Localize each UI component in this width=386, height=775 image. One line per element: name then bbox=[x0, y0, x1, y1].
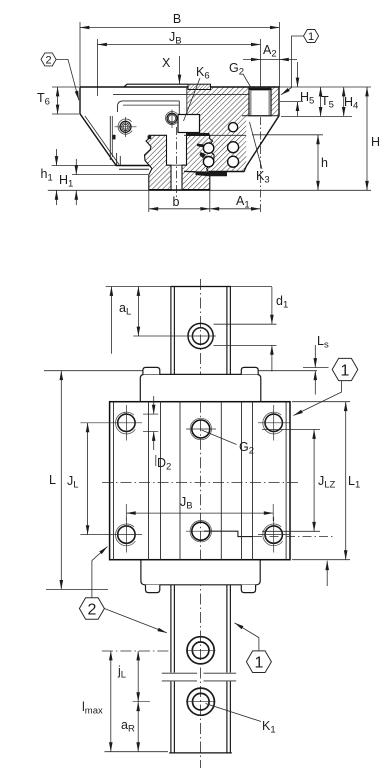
svg-text:h: h bbox=[321, 156, 328, 170]
hexagon 2 lower bbox=[79, 598, 104, 620]
G2 label leader bbox=[202, 430, 237, 445]
X view arrow bbox=[179, 56, 181, 84]
hole A centerline ext bbox=[102, 650, 171, 652]
rail corner seal mark bbox=[148, 136, 152, 139]
rail axis dash-dot bbox=[176, 127, 178, 197]
T5 H4 bottom extension line bbox=[281, 115, 352, 117]
wiper tab top left bbox=[143, 367, 160, 374]
dimension JB line bbox=[98, 44, 261, 46]
aR dimension bbox=[137, 702, 139, 752]
rail hole top bbox=[188, 323, 213, 348]
aL dimension bbox=[137, 287, 139, 337]
side hole centerline dash-dot bbox=[253, 536, 333, 538]
rail edges bottom segment bbox=[170, 585, 172, 673]
h1 arrows bbox=[56, 149, 58, 166]
H1 extension line bbox=[72, 174, 148, 176]
d1 extension lines bbox=[214, 323, 277, 325]
H5 arrows bbox=[297, 62, 299, 87]
h dimension bbox=[317, 135, 319, 191]
corner hole top-right bbox=[265, 414, 282, 431]
lid line on top bbox=[124, 84, 188, 87]
T6 dimension line bbox=[57, 87, 59, 114]
corner hole bottom-left bbox=[118, 526, 135, 543]
L1 dimension bbox=[345, 402, 347, 560]
JB dimension bbox=[125, 504, 127, 521]
H1 arrows bbox=[75, 159, 77, 175]
wiper tab bottom left bbox=[146, 585, 160, 593]
T6 extension lines bbox=[52, 86, 79, 88]
K6 slot edges bbox=[178, 101, 180, 115]
G2 hole bottom shoulder bbox=[242, 115, 278, 117]
h extension line bbox=[252, 134, 323, 136]
K1 leader bbox=[206, 704, 262, 722]
Ls arrows bbox=[314, 345, 316, 368]
rail centerline overlay in carriage bbox=[200, 402, 202, 560]
H4 dimension bbox=[343, 87, 345, 116]
Ls feature line bbox=[303, 367, 329, 369]
rail centerline bbox=[200, 279, 202, 768]
H5 feature line bbox=[280, 101, 303, 103]
rail cross-section right lobe bbox=[182, 135, 214, 189]
L top extension line bbox=[44, 370, 143, 372]
H top extension line bbox=[279, 86, 371, 88]
rail counterbore shelf bbox=[167, 164, 187, 166]
K6 leader bbox=[184, 78, 201, 121]
K6 insert square bbox=[178, 115, 200, 133]
dimension B extension lines bbox=[79, 22, 81, 87]
rail end reference arrow bbox=[110, 287, 112, 354]
wiper tab on top bbox=[188, 84, 211, 89]
dimension A2 arrows bbox=[243, 59, 260, 61]
L bottom extension line bbox=[46, 588, 108, 590]
rail cross-section left lobe bbox=[145, 135, 172, 189]
carriage body rectangle bbox=[110, 402, 290, 560]
svg-text:B: B bbox=[173, 12, 181, 26]
hexagon 2 leader to rail bbox=[104, 609, 166, 633]
ball mid left bbox=[203, 143, 213, 153]
svg-text:X: X bbox=[162, 56, 171, 70]
G2 hole axis dash-dot bbox=[259, 88, 261, 212]
ball mid right bbox=[228, 142, 239, 153]
seal clamp mark bbox=[113, 135, 116, 140]
L1 extension lines bbox=[292, 401, 350, 403]
carriage bottom seal line bbox=[119, 168, 149, 170]
d1 dimension arrows bbox=[271, 287, 273, 324]
end cap inner edges bbox=[109, 116, 111, 160]
G2 counterbore hole bbox=[249, 88, 271, 115]
svg-text:2: 2 bbox=[87, 601, 96, 618]
side lube hole stepped reference line bbox=[204, 531, 253, 536]
rail edges top segment bbox=[170, 287, 172, 375]
carriage internal vertical lines bbox=[148, 402, 150, 560]
body split line bbox=[113, 93, 249, 95]
end cap step lines bbox=[118, 101, 180, 112]
dimension B line bbox=[80, 27, 279, 29]
G2 hole top bbox=[192, 420, 210, 438]
corner hole top-left bbox=[118, 414, 135, 431]
rail hole B bbox=[187, 688, 214, 715]
svg-text:1: 1 bbox=[308, 31, 314, 43]
corner hole bottom-right bbox=[265, 526, 282, 543]
saddle plate top bbox=[140, 374, 260, 401]
hexagon 1 upper bbox=[332, 358, 358, 380]
H bottom extension line bbox=[48, 189, 371, 191]
lmax dimension bbox=[110, 651, 112, 752]
svg-text:2: 2 bbox=[45, 54, 51, 66]
ball top right bbox=[229, 123, 238, 132]
JLZ dimension bbox=[313, 430, 315, 532]
K3 leader bbox=[250, 122, 263, 169]
carriage hatched body bbox=[187, 87, 279, 172]
seal strip lower bbox=[196, 171, 228, 176]
wiper tab bottom right bbox=[241, 585, 255, 593]
hexagon 1 leader bbox=[281, 36, 304, 95]
hexagon 1 upper leader bbox=[294, 381, 342, 416]
b extension lines bbox=[148, 191, 150, 212]
L dimension bbox=[60, 371, 62, 590]
hexagon 2 callout bbox=[41, 53, 56, 66]
carriage chamfer inner line bbox=[85, 116, 119, 165]
carriage inner edge lines bbox=[113, 402, 115, 560]
saddle plate bottom bbox=[141, 560, 260, 585]
h1 extension line bbox=[52, 165, 116, 167]
end cap lower corner edges bbox=[116, 153, 118, 166]
screw port left bbox=[118, 119, 132, 134]
arrow under carriage right bbox=[326, 561, 328, 586]
jL dimension bbox=[137, 651, 139, 702]
hexagon 1 lower bbox=[246, 651, 271, 673]
carriage outline left bbox=[80, 87, 150, 166]
hexagon 1 callout bbox=[304, 30, 319, 43]
rail hole A bbox=[187, 637, 214, 664]
seal strip upper bbox=[186, 133, 210, 136]
D2 arrows bbox=[153, 396, 155, 414]
carriage transverse centerline bbox=[102, 482, 298, 484]
ball low left bbox=[203, 157, 213, 167]
rail top line through body bbox=[184, 134, 246, 136]
hexagon 2 leader bbox=[56, 59, 79, 100]
G2 leader bbox=[243, 74, 252, 89]
rail bottom end line bbox=[105, 751, 169, 753]
wiper tab top right bbox=[241, 367, 258, 374]
rail break lines bbox=[162, 672, 197, 674]
svg-text:b: b bbox=[173, 195, 180, 209]
svg-text:1: 1 bbox=[254, 655, 263, 672]
hexagon 1 lower leader bbox=[235, 623, 259, 651]
ball low right bbox=[228, 156, 239, 167]
carriage outline top/right bbox=[80, 87, 279, 172]
svg-text:L: L bbox=[49, 473, 56, 487]
svg-text:1: 1 bbox=[341, 362, 350, 379]
b dimension bbox=[149, 208, 210, 210]
dimension JB extension lines bbox=[97, 39, 99, 96]
JLZ extension lines bbox=[262, 429, 320, 431]
rail top end line bbox=[106, 286, 272, 288]
H dimension bbox=[366, 87, 368, 190]
svg-text:H: H bbox=[371, 135, 380, 149]
A1 dimension bbox=[210, 208, 261, 210]
T5 dimension bbox=[320, 87, 322, 116]
JL dimension bbox=[87, 423, 89, 535]
hexagon 2 leader up bbox=[92, 547, 108, 598]
G2 hole bottom bbox=[192, 522, 210, 540]
rail bottom thick bbox=[149, 189, 211, 191]
screw port right bbox=[166, 111, 178, 124]
